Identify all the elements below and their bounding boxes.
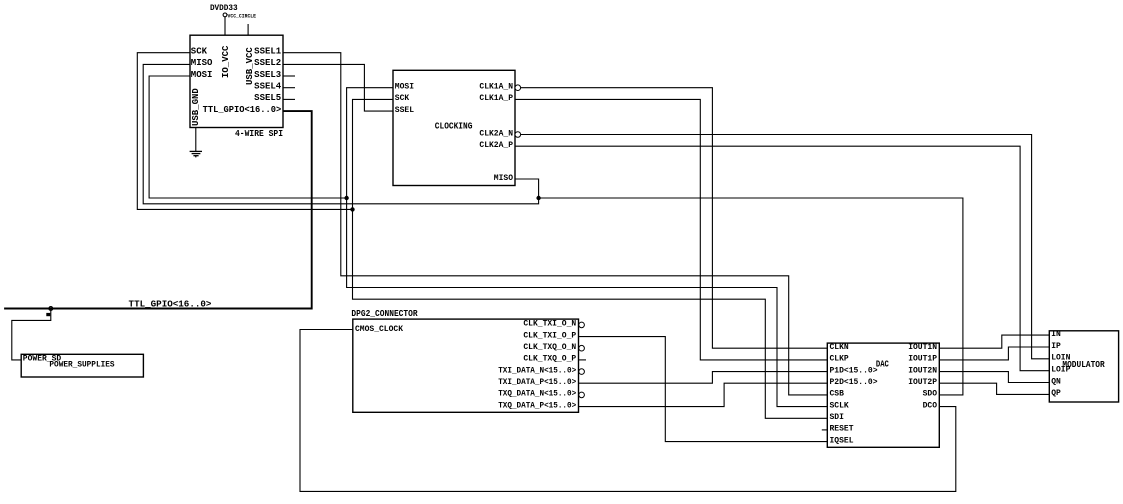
pin CLKN (U3 left) [830,343,849,352]
pin CLK_TXQ_O_N (J1 right) [523,343,584,352]
svg-text:P2D<15..0>: P2D<15..0> [830,378,878,387]
pin SSEL1 (U1 right) [254,47,282,57]
pin IOUT2P (U3 right) [908,378,937,387]
wire SSEL2 net: U1.SSEL2 to U2.SSEL [283,64,393,111]
ground [190,128,202,158]
pin SDO (U3 right) [923,390,938,399]
svg-text:SCK: SCK [191,47,208,57]
pin IOUT1P (U3 right) [908,355,937,364]
junction bus tap [49,307,53,311]
wire SSEL1 net: U1.SSEL1 to U3.CSB [283,53,827,395]
svg-text:POWER_SD: POWER_SD [23,355,62,364]
block PS1 POWER_SUPPLIES body [21,354,143,377]
pin CLK_TXI_O_P (J1 right) [523,331,576,340]
svg-text:CLKN: CLKN [830,343,849,352]
pin RESET (U3 left) [822,425,854,434]
pin TXQ_DATA_P<15..0> (J1 right) [498,401,576,410]
junction SCK net [350,207,354,211]
pin SSEL2 (U1 right) [254,58,281,68]
wire MOSI net: U1.MOSI down to row [149,76,347,198]
svg-text:IOUT2N: IOUT2N [908,366,937,375]
svg-text:CLK_TXQ_O_P: CLK_TXQ_O_P [523,355,576,364]
pin QN (U4 left) [1051,377,1061,386]
pin TTL_GPIO<16..0> (U1 right) [203,105,282,115]
svg-text:CLK1A_N: CLK1A_N [479,83,513,92]
svg-text:LOIP: LOIP [1051,366,1070,375]
svg-text:DCO: DCO [923,401,938,410]
pin SSEL4 (U1 right) [254,82,295,92]
wire CLK1A_N net to U3.CLKN [521,88,828,349]
pin P1D<15..0> (U3 left) [830,366,878,375]
svg-text:SSEL4: SSEL4 [254,82,282,92]
pin MOSI (U2 left) [395,83,414,92]
svg-text:LOIN: LOIN [1051,354,1070,363]
svg-text:MOSI: MOSI [395,83,414,92]
pin USB_VCC (U1 top, rotated) [245,47,255,85]
svg-text:CLKP: CLKP [830,355,849,364]
svg-text:CLK_TXI_O_P: CLK_TXI_O_P [523,331,576,340]
svg-text:SSEL5: SSEL5 [254,93,281,103]
svg-text:CLK_TXQ_O_N: CLK_TXQ_O_N [523,343,576,352]
svg-text:P1D<15..0>: P1D<15..0> [830,366,878,375]
pin DCO (U3 right) [923,401,938,410]
svg-text:MOSI: MOSI [191,70,213,80]
wire IOUT2P net to U4.QP [939,383,1049,394]
wire SCK net: U1.SCK down to row [137,53,352,210]
pin IP (U4 left) [1051,342,1061,351]
svg-text:RESET: RESET [830,425,854,434]
pin TXQ_DATA_N<15..0> (J1 right) [498,390,584,399]
pin P2D<15..0> (U3 left) [830,378,878,387]
svg-text:USB_GND: USB_GND [191,88,201,126]
svg-text:TXI_DATA_N<15..0>: TXI_DATA_N<15..0> [498,366,576,375]
svg-text:4-WIRE SPI: 4-WIRE SPI [235,129,283,139]
pin SCK (U2 left) [395,94,410,103]
net label DVDD33 [210,4,238,13]
wire CLK1A_P net to U3.CLKP [515,99,827,360]
wire CLK2A_N net to U4.LOIN [521,135,1050,359]
wire CLK2A_P net to U4.LOIP [515,146,1049,371]
svg-text:IOUT1P: IOUT1P [908,355,937,364]
pin CLK_TXQ_O_P (J1 right) [523,355,586,364]
IC U4 MODULATOR block body [1049,331,1118,402]
svg-text:SCK: SCK [395,94,410,103]
pin CLK_TXI_O_N (J1 right) [523,320,584,329]
power symbol DVDD33 circle [223,13,227,35]
wire MISO net: U1.MISO to U2.MISO [143,64,538,203]
pin IO_VCC (U1 top, rotated) [221,45,231,78]
pin CSB (U3 left) [830,390,845,399]
svg-text:TTL_GPIO<16..0>: TTL_GPIO<16..0> [203,105,282,115]
pin QP (U4 left) [1051,389,1061,398]
IC U2 CLOCKING block body [393,70,515,185]
pin TXI_DATA_N<15..0> (J1 right) [498,366,584,375]
svg-text:CLOCKING: CLOCKING [435,122,473,132]
pin CMOS_CLOCK (J1 left) [355,325,403,334]
label MODULATOR [1062,360,1105,370]
svg-text:USB_VCC: USB_VCC [245,47,255,85]
connector J1 DPG2_CONNECTOR block body [353,319,579,412]
wire DCO net: U3.DCO to J1.CMOS_CLOCK [300,330,956,492]
label CLOCKING [435,122,473,132]
svg-text:SCLK: SCLK [830,401,849,410]
pin CLK2A_P (U2 right) [479,141,513,150]
svg-text:QP: QP [1051,389,1061,398]
wire TTL_GPIO<16..0> bus [4,111,312,308]
wire IOUT1N net to U4.IN [939,335,1049,348]
svg-text:IN: IN [1051,330,1061,339]
svg-text:QN: QN [1051,377,1061,386]
svg-text:MISO: MISO [494,174,513,183]
pin CLK1A_N (U2 right) [479,83,520,92]
pin IN (U4 left) [1051,330,1061,339]
svg-text:SSEL: SSEL [395,106,414,115]
net label TTL_GPIO<16..0> [129,299,212,310]
pin SCLK (U3 left) [830,401,849,410]
pin USB_GND (U1 bottom, rotated) [191,88,201,126]
label POWER_SUPPLIES [49,361,114,370]
svg-text:CLK_TXI_O_N: CLK_TXI_O_N [523,320,576,329]
pin IOUT2N (U3 right) [908,366,937,375]
svg-text:SSEL2: SSEL2 [254,58,281,68]
svg-text:SDO: SDO [923,390,938,399]
pin CLK2A_N (U2 right) [479,129,520,138]
svg-text:SSEL3: SSEL3 [254,70,281,80]
pin CLKP (U3 left) [830,355,849,364]
svg-text:IP: IP [1051,342,1061,351]
pin LOIN (U4 left) [1051,354,1070,363]
pin SDI (U3 left) [830,413,845,422]
svg-text:TXI_DATA_P<15..0>: TXI_DATA_P<15..0> [498,378,576,387]
pin TXI_DATA_P<15..0> (J1 right) [498,378,576,387]
pin MOSI (U1 left) [191,70,213,80]
svg-text:IQSEL: IQSEL [830,436,854,445]
svg-text:DVDD33: DVDD33 [210,4,238,13]
wire IOUT1P net to U4.IP [939,347,1049,360]
pin LOIP (U4 left) [1051,366,1070,375]
label 4-WIRE SPI [235,129,283,139]
value label VCC_CIRCLE [228,13,257,19]
pin IOUT1N (U3 right) [908,343,937,352]
svg-text:IOUT1N: IOUT1N [908,343,937,352]
svg-text:IOUT2P: IOUT2P [908,378,937,387]
pin IQSEL (U3 left) [830,436,854,445]
svg-text:DAC: DAC [876,360,889,370]
svg-text:CLK2A_N: CLK2A_N [479,129,513,138]
pin SSEL3 (U1 right) [254,70,295,80]
pin MISO (U1 left) [191,58,213,68]
svg-text:CMOS_CLOCK: CMOS_CLOCK [355,325,403,334]
svg-text:TTL_GPIO<16..0>: TTL_GPIO<16..0> [129,299,212,310]
svg-text:VCC_CIRCLE: VCC_CIRCLE [228,13,257,19]
pin SSEL (U2 left) [395,106,414,115]
junction MOSI net [344,196,348,200]
bus entry mark [46,313,50,316]
svg-text:CLK1A_P: CLK1A_P [479,94,513,103]
wire TXQ_DATA_P net to U3.P2D [579,383,828,406]
wire POWER_SD tap to PS1 [12,309,51,360]
wire TXI_DATA_P net to U3.P1D [579,372,828,384]
svg-text:CLK2A_P: CLK2A_P [479,141,513,150]
pin POWER_SD (PS1 left) [23,355,62,364]
IC U3 DAC block body [827,343,939,447]
svg-text:DPG2_CONNECTOR: DPG2_CONNECTOR [351,309,418,319]
pin CLK1A_P (U2 right) [479,94,513,103]
pin SSEL5 (U1 right) [254,93,295,103]
label DAC [876,360,889,370]
svg-text:TXQ_DATA_P<15..0>: TXQ_DATA_P<15..0> [498,401,576,410]
IC U1 4-WIRE SPI block body [190,35,283,127]
svg-text:IO_VCC: IO_VCC [221,45,231,78]
svg-text:MISO: MISO [191,58,213,68]
label DPG2_CONNECTOR [351,309,418,319]
wire U2.SCK stub down to U3.SDI [353,99,828,418]
svg-text:SDI: SDI [830,413,845,422]
svg-text:TXQ_DATA_N<15..0>: TXQ_DATA_N<15..0> [498,390,576,399]
wire CLK_TXI_O_P net to U3.IQSEL [579,337,828,442]
wire IOUT2N net to U4.QN [939,372,1049,383]
svg-text:SSEL1: SSEL1 [254,47,282,57]
junction MISO branch [536,196,540,200]
svg-text:CSB: CSB [830,390,845,399]
wire MISO branch to U3.SDO [539,198,963,395]
wire U2.MOSI stub down to U3.SCLK [347,88,828,407]
pin SCK (U1 left) [191,47,208,57]
wire USB_VCC stub [247,24,249,35]
pin MISO (U2 right) [494,174,513,183]
